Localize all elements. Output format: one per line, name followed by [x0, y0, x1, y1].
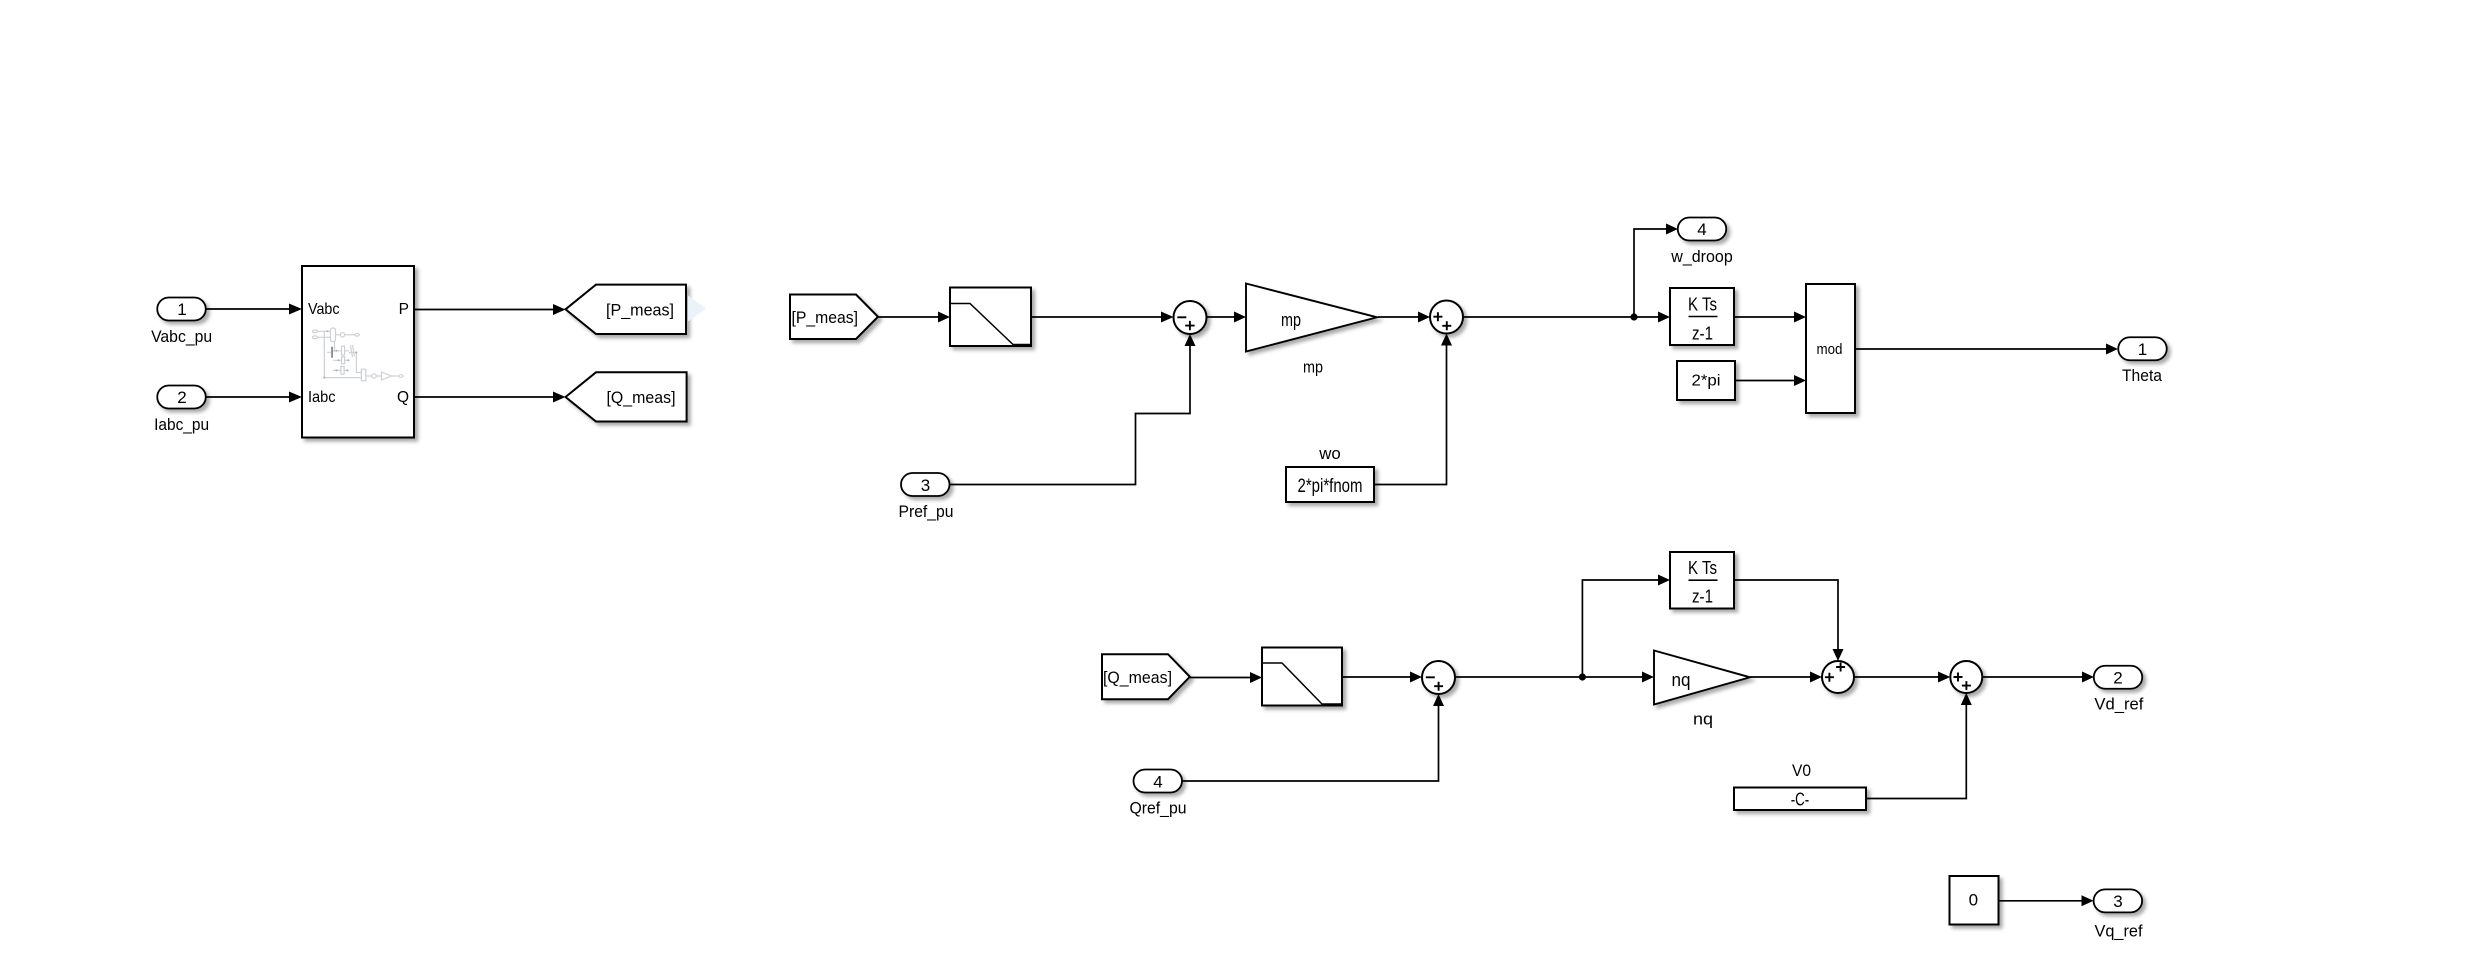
constant 2*pi: [1677, 361, 1735, 400]
svg-text:1: 1: [2138, 340, 2147, 359]
svg-text:K Ts: K Ts: [1688, 295, 1717, 315]
wire mod to Theta: [1855, 348, 2106, 350]
svg-text:P: P: [399, 301, 409, 318]
wire 0 to Vq_ref: [1999, 900, 2082, 902]
subsystem power measurement block: [302, 266, 414, 438]
wire P to goto: [414, 309, 553, 311]
svg-text:[P_meas]: [P_meas]: [792, 308, 859, 327]
wire Q to goto: [414, 396, 553, 398]
sum4: [1822, 661, 1854, 693]
sum1: [1174, 301, 1207, 334]
wire wo to sum2: [1374, 346, 1447, 485]
outport 2 Vd_ref: [2094, 666, 2143, 689]
svg-text:3: 3: [2113, 892, 2122, 911]
svg-text:1: 1: [177, 300, 186, 319]
svg-text:[Q_meas]: [Q_meas]: [607, 388, 676, 407]
wire sum5 to Vd_ref: [1983, 676, 2083, 678]
svg-text:Vabc: Vabc: [308, 301, 340, 318]
svg-text:[Q_meas]: [Q_meas]: [1103, 668, 1172, 687]
svg-text:Theta: Theta: [2122, 366, 2162, 385]
wire sum3 to gain nq with branch: [1455, 676, 1642, 678]
wire sum4 to sum5: [1854, 676, 1938, 678]
svg-text:mp: mp: [1281, 310, 1301, 330]
svg-text:Vd_ref: Vd_ref: [2094, 695, 2143, 714]
LPF2 block: [1262, 648, 1342, 706]
wire nq to sum4: [1750, 676, 1810, 678]
outport 1 Theta: [2118, 337, 2167, 360]
svg-text:mod: mod: [1817, 341, 1843, 358]
svg-text:2: 2: [177, 388, 186, 407]
goto [Q_meas]: [566, 372, 687, 421]
svg-text:wo: wo: [1318, 444, 1340, 463]
svg-text:V0: V0: [1792, 761, 1811, 780]
inport 4 Qref_pu: [1134, 770, 1183, 793]
svg-text:-C-: -C-: [1791, 790, 1810, 810]
svg-text:4: 4: [1153, 772, 1162, 791]
svg-text:nq: nq: [1672, 670, 1691, 690]
branch node q: [1579, 673, 1586, 680]
sum5: [1950, 661, 1982, 693]
constant 0: [1950, 876, 1999, 925]
wire Qref to sum3: [1182, 706, 1439, 781]
gain nq: [1654, 651, 1750, 705]
wire from to LPF1: [878, 316, 938, 318]
wire gain to sum2: [1378, 316, 1418, 318]
outport 4 w_droop: [1678, 218, 1727, 241]
svg-text:Vq_ref: Vq_ref: [2095, 922, 2143, 941]
svg-text:w_droop: w_droop: [1670, 247, 1732, 266]
svg-text:nq: nq: [1693, 710, 1713, 729]
wire branch to K Ts 2: [1582, 580, 1658, 677]
svg-text:4: 4: [1697, 220, 1706, 239]
wire sum2 to K Ts with branch: [1463, 316, 1658, 318]
inport 3 Pref_pu: [901, 473, 950, 496]
wire branch to w_droop port: [1634, 229, 1666, 317]
wire port2 to subsystem: [206, 396, 290, 398]
branch node: [1630, 313, 1637, 320]
inport 1 Vabc_pu: [157, 298, 206, 321]
mod block: [1806, 284, 1855, 413]
LPF1 block: [950, 288, 1031, 347]
svg-text:Qref_pu: Qref_pu: [1130, 799, 1187, 818]
wire port1 to subsystem: [206, 308, 290, 310]
wire K Ts to mod: [1734, 316, 1794, 318]
svg-text:mp: mp: [1303, 358, 1323, 377]
subsystem mini icon: [312, 328, 403, 381]
sum2: [1430, 301, 1463, 334]
inport 2 Iabc_pu: [157, 386, 206, 409]
goto [P_meas]: [566, 285, 687, 334]
svg-text:0: 0: [1969, 890, 1978, 909]
discrete integrator K Ts / z-1 (top): [1670, 288, 1734, 345]
faint goto arrow: [688, 296, 706, 322]
discrete integrator K Ts / z-1 (bottom): [1670, 552, 1734, 609]
svg-text:Vabc_pu: Vabc_pu: [151, 327, 212, 346]
svg-text:z-1: z-1: [1692, 587, 1713, 607]
svg-text:z-1: z-1: [1692, 323, 1713, 343]
svg-text:Pref_pu: Pref_pu: [899, 502, 954, 521]
sum3: [1422, 661, 1455, 694]
from [Q_meas]: [1102, 654, 1190, 699]
outport 3 Vq_ref: [2094, 889, 2143, 912]
wire V0 to sum5: [1866, 705, 1966, 799]
svg-text:2*pi*fnom: 2*pi*fnom: [1298, 476, 1363, 497]
wire 2*pi to mod: [1735, 380, 1794, 382]
svg-text:Iabc: Iabc: [308, 389, 336, 406]
wire K Ts 2 to sum4 top: [1734, 580, 1838, 649]
svg-text:2: 2: [2113, 669, 2122, 688]
wire LPF2 to sum3: [1342, 676, 1410, 678]
svg-text:Iabc_pu: Iabc_pu: [154, 415, 209, 434]
wire from to LPF2: [1190, 677, 1250, 679]
wire Pref to sum1: [950, 346, 1190, 485]
wire LPF1 to sum1: [1031, 316, 1161, 318]
svg-text:Q: Q: [397, 389, 409, 406]
svg-text:3: 3: [921, 476, 930, 495]
svg-text:K Ts: K Ts: [1688, 558, 1717, 578]
svg-text:2*pi: 2*pi: [1692, 373, 1721, 390]
from [P_meas]: [790, 295, 878, 340]
wire sum1 to gain mp: [1207, 316, 1235, 318]
svg-text:[P_meas]: [P_meas]: [606, 300, 674, 319]
gain mp: [1246, 284, 1377, 352]
